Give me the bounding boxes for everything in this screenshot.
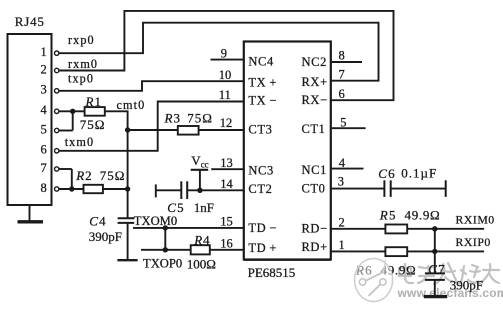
junction Vcc/C5/CT2 node (197, 188, 202, 193)
wire R3 to U1 CT3 (pin12) (199, 129, 244, 131)
svg-text:0.1µF: 0.1µF (401, 165, 437, 180)
svg-text:2: 2 (41, 62, 47, 76)
svg-text:Vcc: Vcc (191, 153, 208, 169)
C4 bottom terminal bar (117, 259, 137, 261)
svg-text:C6: C6 (378, 166, 396, 181)
junction pins 7/8 (69, 186, 74, 191)
svg-text:cmt0: cmt0 (117, 98, 146, 112)
svg-text:10: 10 (219, 68, 232, 82)
svg-text:txm0: txm0 (65, 135, 94, 149)
svg-text:5: 5 (41, 122, 47, 136)
wire TXOP0 to R4 (141, 249, 191, 251)
wire RJ45 pin7 stub (59, 168, 72, 170)
capacitor C4 plates (118, 218, 135, 223)
svg-text:7: 7 (339, 67, 345, 81)
wire joining TXOM0 and TXOP0 (164, 228, 166, 250)
resistor R6 (385, 247, 407, 256)
svg-text:RX+: RX+ (302, 75, 328, 89)
svg-text:TD +: TD + (248, 241, 277, 255)
U1 left pin numbers (219, 46, 234, 250)
svg-text:6: 6 (41, 143, 47, 157)
svg-text:8: 8 (339, 49, 345, 63)
svg-text:75Ω: 75Ω (100, 168, 126, 183)
svg-text:CT1: CT1 (302, 122, 326, 136)
wire U1 pin5 stub (331, 127, 366, 129)
svg-text:NC2: NC2 (302, 55, 327, 69)
wire joining pins 7 and 8 (71, 169, 73, 189)
svg-text:R3: R3 (164, 111, 181, 126)
watermark logo circle (overlay) (355, 259, 393, 302)
svg-text:75Ω: 75Ω (80, 117, 106, 132)
wire R6 to RXIP0 (407, 250, 484, 252)
svg-text:1: 1 (339, 238, 345, 252)
svg-text:RD+: RD+ (302, 240, 328, 254)
wire txp0: RJ45 pin3 to U1 TX+ (pin10) (59, 81, 244, 91)
svg-text:390pF: 390pF (450, 277, 483, 292)
svg-text:rxm0: rxm0 (68, 57, 98, 71)
svg-text:txp0: txp0 (68, 71, 94, 85)
wire cmt0 vertical to C4 (127, 130, 129, 218)
svg-text:TD −: TD − (248, 221, 277, 235)
wire U1 pin13 stub (211, 168, 244, 170)
svg-text:RD−: RD− (302, 221, 328, 235)
RJ45 pin numbers 1-8 (41, 45, 48, 195)
wire U1 CT0 (pin3) to C6 (331, 188, 385, 190)
junction TXOM0 (163, 225, 168, 230)
svg-text:3: 3 (41, 83, 47, 97)
svg-text:NC3: NC3 (248, 163, 273, 177)
U1 right pin numbers (338, 49, 347, 252)
wire R1 to cmt0 node (105, 111, 128, 130)
svg-text:TXOP0: TXOP0 (143, 256, 182, 270)
C5 left terminal bar (155, 184, 157, 197)
capacitor C7 plates (425, 273, 445, 280)
svg-text:3: 3 (338, 174, 344, 188)
resistor R4 (191, 245, 210, 254)
junction R2/C4 node (125, 186, 130, 191)
connector RJ45 body (8, 34, 52, 205)
svg-text:15: 15 (220, 215, 233, 229)
svg-text:390pF: 390pF (89, 229, 122, 244)
svg-text:R2: R2 (75, 168, 92, 183)
svg-text:PE68515: PE68515 (248, 265, 296, 280)
svg-text:C7: C7 (428, 261, 446, 276)
resistor R5 (385, 225, 407, 234)
svg-text:1: 1 (41, 45, 47, 59)
junction pins 4/5 (70, 109, 75, 114)
svg-text:RX−: RX− (302, 93, 328, 107)
wire RJ45 pin5 stub (59, 130, 73, 132)
svg-text:49.9Ω: 49.9Ω (405, 208, 441, 223)
svg-text:12: 12 (220, 116, 233, 130)
wire U1 pin9 stub (211, 59, 244, 61)
svg-text:RXIM0: RXIM0 (456, 212, 495, 226)
svg-text:RXIP0: RXIP0 (456, 235, 491, 249)
junction RXIM0 (432, 226, 437, 231)
svg-text:R5: R5 (379, 208, 397, 223)
svg-text:C4: C4 (89, 213, 107, 228)
junction RXIP0 (432, 249, 437, 254)
RJ45 pin circles 1-8 (55, 51, 59, 191)
svg-text:100Ω: 100Ω (187, 257, 216, 272)
capacitor C5 plates (181, 181, 187, 199)
U1 right pin labels (302, 55, 328, 254)
svg-text:4: 4 (339, 156, 346, 170)
svg-text:CT3: CT3 (248, 122, 272, 136)
wire joining pins 4 and 5 (72, 111, 74, 130)
svg-text:NC4: NC4 (248, 55, 274, 69)
svg-text:rxp0: rxp0 (68, 33, 95, 47)
svg-text:16: 16 (220, 236, 233, 250)
C6 right terminal bar (445, 180, 447, 197)
svg-text:14: 14 (220, 177, 233, 191)
wire C7 to ground (434, 280, 436, 295)
resistor R2 (84, 185, 103, 193)
wire R2 to C4 node (103, 188, 128, 190)
svg-text:R4: R4 (193, 233, 210, 248)
resistor R1 (85, 107, 105, 116)
svg-text:8: 8 (41, 181, 47, 195)
svg-text:RJ45: RJ45 (15, 14, 45, 29)
svg-text:7: 7 (41, 161, 47, 175)
svg-text:75Ω: 75Ω (187, 111, 213, 126)
wire U1 RD- (pin2) to R5 (331, 228, 386, 230)
svg-text:2: 2 (339, 215, 345, 229)
svg-text:TX +: TX + (248, 75, 277, 89)
wire rxp0: RJ45 pin1 to U1 RX+ (pin7) (59, 23, 379, 81)
junction TXOP0 (163, 247, 168, 252)
svg-text:C5: C5 (167, 200, 185, 215)
wire C5 left terminal to plates (156, 189, 182, 191)
svg-text:TXOM0: TXOM0 (134, 214, 177, 228)
wire rxm0: RJ45 pin2 to U1 RX- (pin6) (59, 11, 394, 100)
watermark chinese characters (电子发烧友, drawn) (399, 263, 499, 284)
wire TXOM0 to U1 TD- (pin15) (133, 227, 244, 229)
resistor R3 (178, 126, 199, 135)
svg-text:9: 9 (221, 46, 227, 60)
wire C6 to right terminal (391, 188, 446, 190)
ground (RJ45 shield) (18, 205, 44, 222)
svg-text:6: 6 (339, 87, 345, 101)
svg-text:5: 5 (340, 115, 346, 129)
transformer U1 PE68515 body (244, 259, 331, 261)
svg-text:1nF: 1nF (194, 200, 214, 215)
wire cmt0 node to R3 (128, 129, 178, 131)
svg-text:4: 4 (41, 103, 48, 117)
wire R5 to RXIM0 (407, 228, 484, 230)
wire U1 RD+ (pin1) to R6 (331, 250, 386, 252)
svg-text:TX −: TX − (248, 93, 277, 107)
svg-text:13: 13 (220, 156, 233, 170)
wire R4 to U1 TD+ (pin16) (210, 249, 244, 251)
wire U1 pin8 stub (331, 61, 362, 63)
wire RJ45 pin4 to R1 (59, 110, 85, 112)
wire RJ45 pin8 to R2 (59, 188, 84, 190)
U1 left pin labels (248, 55, 277, 255)
svg-text:NC1: NC1 (302, 163, 327, 177)
wire txm0: RJ45 pin6 to U1 TX- (pin11) (59, 102, 244, 151)
svg-text:CT0: CT0 (302, 181, 326, 195)
Vcc power symbol (191, 169, 209, 171)
capacitor C6 plates (384, 180, 390, 197)
wire Vcc to CT2 node (199, 170, 201, 191)
wire C4 to bottom terminal (127, 223, 129, 260)
junction cmt0 node (125, 127, 130, 132)
wire C5 to U1 CT2 (pin14) (187, 189, 244, 191)
svg-text:11: 11 (219, 88, 231, 102)
svg-text:CT2: CT2 (248, 182, 272, 196)
wire U1 pin4 stub (331, 168, 364, 170)
ground (C7) (424, 295, 447, 298)
wire RXIM0/RXIP0 junction vertical to C7 (434, 229, 436, 274)
svg-text:R1: R1 (85, 94, 102, 109)
